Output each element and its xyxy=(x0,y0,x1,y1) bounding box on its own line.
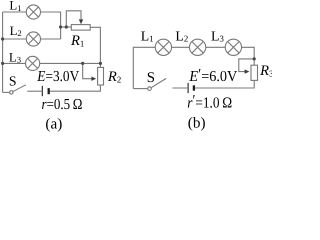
junction dot: R2 top node (a) xyxy=(99,62,102,65)
arrowhead: R2 wiper xyxy=(91,77,96,81)
wire: L1 right down to node 1 xyxy=(41,12,61,39)
wire: L1 to L2 (b) xyxy=(172,46,190,48)
wire: R3 wiper elbow (b) xyxy=(239,59,254,72)
switch blade (b) xyxy=(151,78,166,87)
svg-text:S: S xyxy=(9,74,17,89)
resistor R2 box xyxy=(98,67,104,85)
svg-text:E′=6.0V: E′=6.0V xyxy=(188,66,237,85)
wire: node down to R2 top xyxy=(99,63,101,67)
lamp L3 (a) xyxy=(25,56,39,70)
wire: L2 left xyxy=(3,38,27,40)
lamp L1 (b) xyxy=(155,39,171,55)
svg-text:L1: L1 xyxy=(9,0,21,13)
wire: R2 wiper elbow xyxy=(83,63,92,78)
svg-text:E=3.0V: E=3.0V xyxy=(36,68,79,85)
wire: L2 to L3 (b) xyxy=(206,46,226,48)
battery (b) long plate xyxy=(187,83,189,93)
svg-text:r=0.5 Ω: r=0.5 Ω xyxy=(42,96,83,113)
resistor R3 box (b) xyxy=(251,65,258,80)
svg-text:(b): (b) xyxy=(188,114,206,131)
svg-text:(a): (a) xyxy=(45,115,62,132)
switch pivot circle (a) xyxy=(10,91,13,94)
arrowhead: R1 wiper xyxy=(79,19,83,24)
junction dot: node 1 (a) xyxy=(59,25,62,28)
junction dot: bus at L2 (a) xyxy=(1,37,4,40)
wire: L3 right to node xyxy=(40,62,101,64)
wire: left bus circuit a xyxy=(2,12,4,92)
battery (b) short plate xyxy=(193,85,195,90)
arrowhead: R3 wiper (b) xyxy=(245,69,250,73)
wire: L2 right xyxy=(41,38,61,40)
switch pivot circle (b) xyxy=(148,87,152,91)
lamp L2 (a) xyxy=(26,32,40,46)
wire: L3 right and down to R3 top (b) xyxy=(242,47,255,65)
wire: L3 left xyxy=(3,62,26,64)
wire: L1 branch top a xyxy=(3,11,27,13)
junction dot: R2 wiper tap (a) xyxy=(81,62,84,65)
switch blade (a) xyxy=(13,85,26,92)
wire: R1 right terminal down to node xyxy=(90,27,100,63)
svg-text:S: S xyxy=(147,70,155,86)
wire: pivot to left corner (b) xyxy=(133,88,147,90)
wire: battery left to switch blade end (b) xyxy=(172,87,188,89)
wire: left side circuit b xyxy=(133,47,155,88)
wire: battery left to switch blade end (a) xyxy=(27,90,42,92)
wire: R1 wiper elbow xyxy=(66,11,81,27)
junction dot: bus at L3 (a) xyxy=(1,62,4,65)
wire: pivot to left bus corner (a) xyxy=(3,91,10,93)
lamp L2 (b) xyxy=(189,39,205,55)
wire: R3 bottom down and left to battery (b) xyxy=(195,80,254,88)
battery (a) long plate xyxy=(41,86,43,96)
wire: R2 bottom down and left to battery xyxy=(50,85,101,91)
lamp L3 (b) xyxy=(225,39,241,55)
junction dot: node 2 (a) xyxy=(65,25,68,28)
wire: node row to R1 left terminal xyxy=(61,26,72,28)
lamp L1 (a) xyxy=(26,5,40,19)
resistor R1 box xyxy=(71,25,90,31)
battery (a) short plate xyxy=(48,88,50,94)
junction dot: R3 top node (b) xyxy=(253,57,256,60)
svg-text:r′=1.0 Ω: r′=1.0 Ω xyxy=(187,92,232,111)
